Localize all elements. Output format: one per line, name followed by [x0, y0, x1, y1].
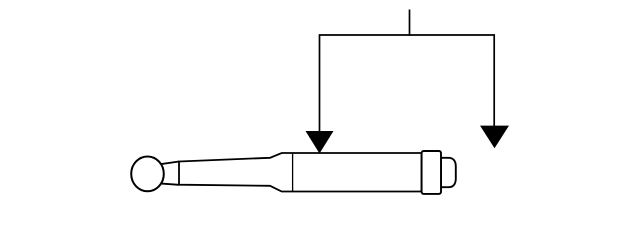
seam line	[292, 154, 294, 192]
callout stem	[409, 10, 411, 36]
neck top line	[156, 162, 179, 165]
collar	[422, 151, 441, 194]
right arrowhead	[480, 126, 509, 149]
callout crossbar with leader drops	[320, 35, 495, 133]
end cap	[441, 158, 456, 187]
rod body outline	[179, 153, 422, 192]
neck bottom line	[156, 183, 179, 185]
left arrowhead	[306, 131, 334, 154]
ball end	[131, 157, 164, 192]
